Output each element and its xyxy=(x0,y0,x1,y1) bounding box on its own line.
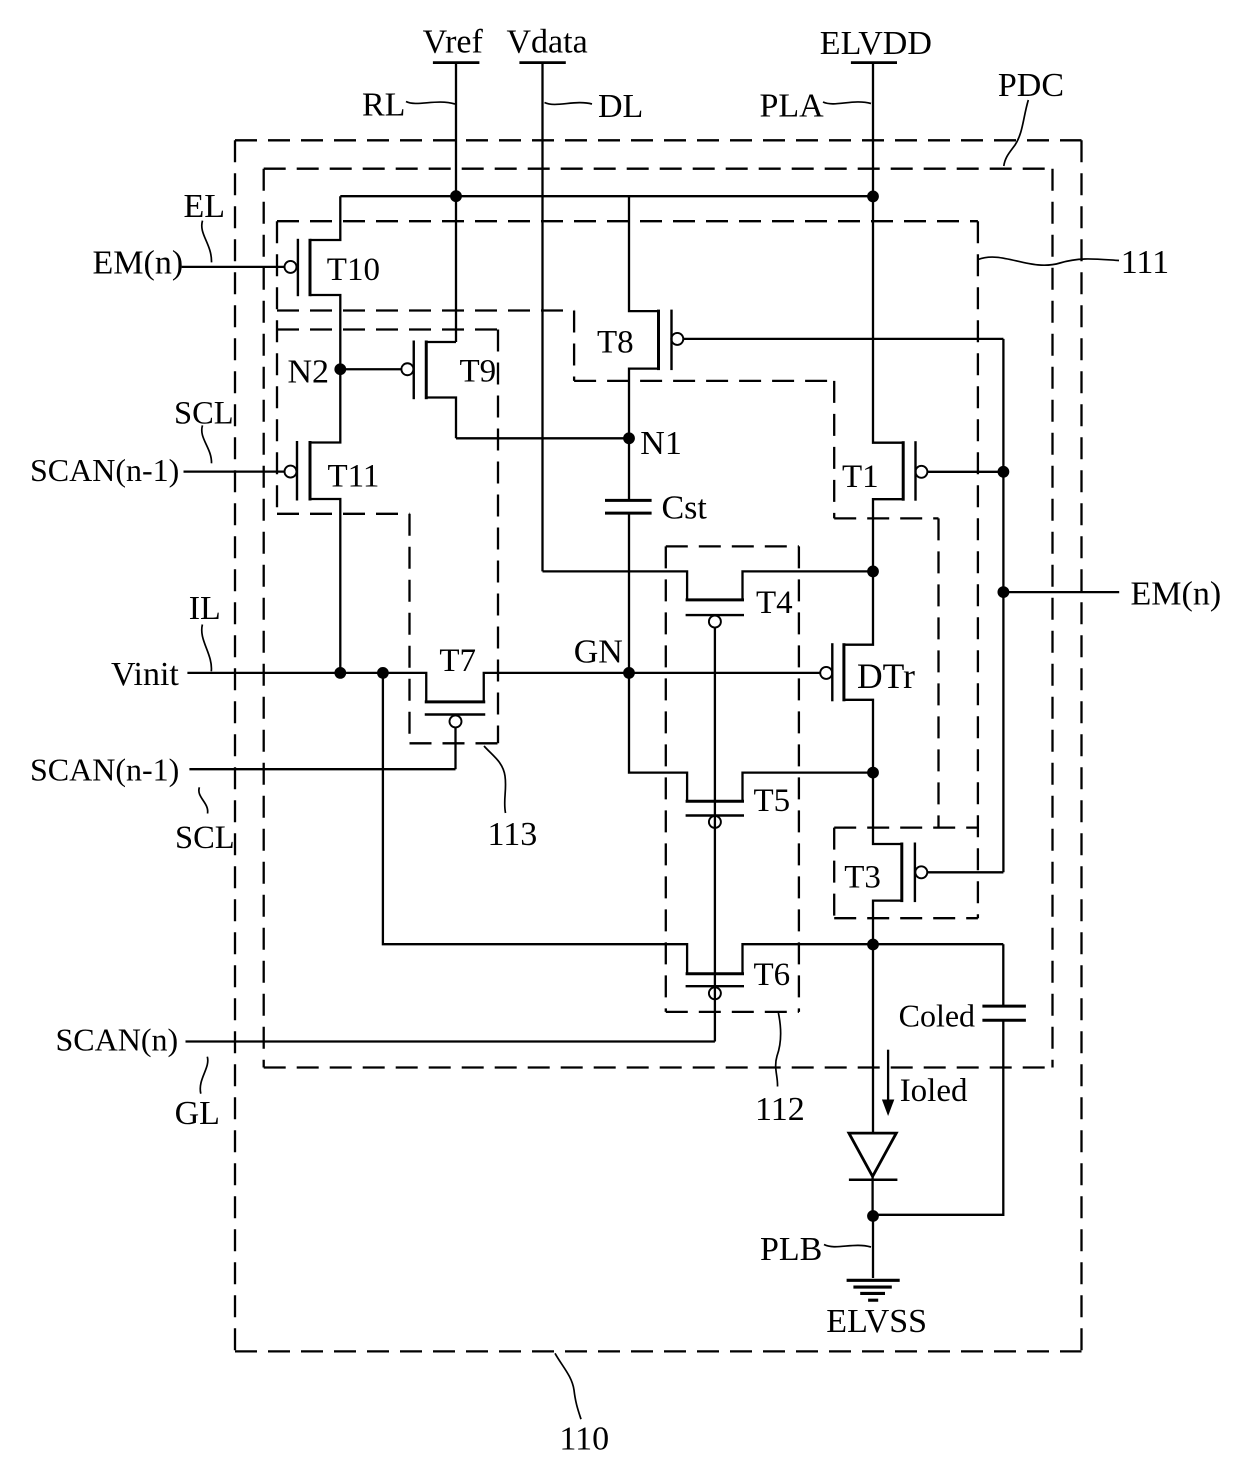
svg-text:T11: T11 xyxy=(328,458,380,494)
svg-text:T6: T6 xyxy=(754,957,791,993)
svg-text:PDC: PDC xyxy=(998,67,1064,104)
svg-text:GN: GN xyxy=(574,634,623,671)
svg-text:T8: T8 xyxy=(597,325,634,361)
svg-text:SCL: SCL xyxy=(174,395,234,431)
svg-text:SCL: SCL xyxy=(175,820,235,856)
svg-text:N2: N2 xyxy=(288,354,330,391)
svg-text:111: 111 xyxy=(1121,244,1169,281)
svg-text:RL: RL xyxy=(362,87,405,124)
svg-text:SCAN(n-1): SCAN(n-1) xyxy=(30,752,179,788)
svg-text:Ioled: Ioled xyxy=(900,1073,968,1109)
svg-text:T10: T10 xyxy=(327,252,380,288)
svg-text:113: 113 xyxy=(488,816,538,853)
svg-text:PLA: PLA xyxy=(760,88,825,125)
svg-text:IL: IL xyxy=(189,590,221,627)
svg-text:Cst: Cst xyxy=(662,490,708,527)
svg-text:DL: DL xyxy=(598,88,643,125)
svg-text:T4: T4 xyxy=(756,585,793,621)
svg-text:Coled: Coled xyxy=(899,998,975,1034)
svg-text:N1: N1 xyxy=(640,425,682,462)
svg-text:EM(n): EM(n) xyxy=(93,245,184,282)
svg-text:T7: T7 xyxy=(439,643,476,679)
svg-text:EL: EL xyxy=(184,188,226,225)
svg-text:T5: T5 xyxy=(754,783,791,819)
svg-text:ELVSS: ELVSS xyxy=(826,1303,927,1340)
svg-text:PLB: PLB xyxy=(760,1231,822,1268)
svg-text:DTr: DTr xyxy=(857,656,915,696)
svg-text:112: 112 xyxy=(755,1091,805,1128)
svg-text:T3: T3 xyxy=(844,860,881,896)
svg-text:Vinit: Vinit xyxy=(111,656,179,693)
svg-text:Vdata: Vdata xyxy=(507,23,588,60)
svg-text:SCAN(n): SCAN(n) xyxy=(56,1022,179,1058)
svg-text:T1: T1 xyxy=(842,459,879,495)
svg-text:EM(n): EM(n) xyxy=(1131,576,1222,613)
svg-text:ELVDD: ELVDD xyxy=(820,25,932,62)
svg-text:SCAN(n-1): SCAN(n-1) xyxy=(30,452,179,488)
svg-text:T9: T9 xyxy=(460,353,497,389)
svg-text:Vref: Vref xyxy=(423,23,484,60)
svg-text:GL: GL xyxy=(175,1095,220,1132)
svg-text:110: 110 xyxy=(559,1421,609,1458)
